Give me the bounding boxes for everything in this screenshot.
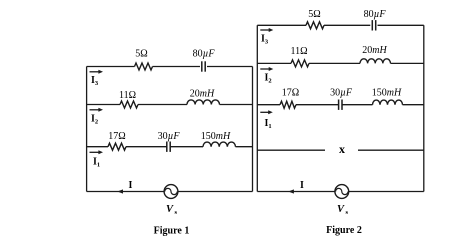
wire: Fig1 lower branch left segment: [87, 146, 108, 148]
svg-text:Figure 2: Figure 2: [326, 225, 362, 236]
svg-text:11Ω: 11Ω: [290, 46, 307, 57]
svg-text:17Ω: 17Ω: [282, 88, 299, 99]
svg-text:s: s: [175, 209, 178, 216]
wire: [309, 62, 360, 64]
svg-text:I3: I3: [91, 75, 99, 87]
wire: Fig1 bottom rail left of source: [87, 191, 165, 193]
svg-text:I2: I2: [265, 73, 272, 85]
resistor 17Ω (Fig1 lower branch): [108, 143, 126, 150]
wire: [220, 104, 253, 106]
wire: [153, 66, 201, 68]
current arrow I on Fig2 bottom wire (pointing left): [288, 189, 294, 193]
wire: [324, 24, 370, 26]
wire: [236, 146, 253, 148]
wire: [138, 104, 187, 106]
wire: [296, 104, 339, 106]
current arrow I3 (Fig1): [90, 71, 100, 73]
wire: [207, 66, 253, 68]
Figure 2 right rail wire: [423, 25, 425, 191]
wire: [126, 146, 167, 148]
svg-text:80µF: 80µF: [364, 9, 387, 20]
capacitor 30µF (Fig2 third branch): [338, 100, 340, 110]
svg-text:30µF: 30µF: [158, 131, 181, 142]
inductor 150mH (Fig2 third branch): [373, 100, 403, 105]
Figure 2 left rail wire: [256, 25, 258, 191]
wire: Fig2 top branch left segment: [257, 24, 306, 26]
Figure 1 left rail wire: [86, 67, 88, 192]
wire: Fig2 bottom rail left of source: [257, 191, 335, 193]
AC source Vs (Fig2): [335, 185, 349, 199]
inductor 20mH (Fig1 middle branch): [187, 100, 219, 105]
current arrow I1 (Fig1): [90, 151, 100, 153]
wire: [342, 104, 373, 106]
svg-text:x: x: [339, 142, 345, 156]
svg-text:5Ω: 5Ω: [308, 9, 320, 20]
svg-text:30µF: 30µF: [330, 88, 353, 99]
resistor 11Ω (Fig1 middle branch): [120, 101, 138, 108]
wire: Fig2 bottom rail right of source: [349, 191, 424, 193]
svg-text:80µF: 80µF: [193, 49, 216, 60]
current arrow I3 (Fig2): [260, 29, 269, 31]
svg-text:I2: I2: [91, 114, 98, 126]
inductor 20mH (Fig2 second branch): [360, 59, 390, 64]
svg-text:5Ω: 5Ω: [135, 49, 147, 60]
svg-text:V: V: [166, 204, 174, 215]
wire: Fig2 second branch left segment: [257, 62, 291, 64]
current arrow I on Fig1 bottom wire (pointing left): [117, 189, 123, 193]
current arrow I2 (Fig1): [90, 109, 100, 111]
wire: Fig1 top branch left segment: [87, 66, 135, 68]
wire: [378, 24, 424, 26]
svg-text:I1: I1: [93, 157, 100, 169]
Figure 1 right rail wire: [252, 67, 254, 192]
wire: [391, 62, 424, 64]
svg-text:20mH: 20mH: [190, 88, 215, 99]
svg-text:I3: I3: [261, 34, 269, 46]
wire: Fig1 middle branch left segment: [87, 104, 120, 106]
svg-text:11Ω: 11Ω: [119, 90, 136, 101]
svg-text:I1: I1: [265, 118, 272, 130]
svg-text:V: V: [337, 204, 345, 215]
resistor 5Ω (Fig2 top branch): [306, 22, 324, 29]
wire: [403, 104, 424, 106]
current arrow I1 (Fig2): [260, 111, 269, 113]
svg-text:s: s: [346, 209, 349, 216]
svg-text:I: I: [300, 180, 304, 191]
resistor 5Ω (Fig1 top branch): [135, 63, 153, 70]
resistor 11Ω (Fig2 second branch): [291, 60, 309, 67]
AC source Vs (Fig1): [164, 185, 178, 199]
capacitor 80µF (Fig2 top branch): [371, 20, 373, 30]
wire: Fig2 X branch right segment: [358, 149, 424, 151]
wire: Fig2 X branch left segment: [257, 149, 325, 151]
resistor 17Ω (Fig2 third branch): [280, 101, 296, 108]
svg-text:17Ω: 17Ω: [108, 131, 125, 142]
wire: Fig2 third branch left segment: [257, 104, 280, 106]
svg-text:20mH: 20mH: [362, 45, 387, 56]
capacitor 30µF (Fig1 lower branch): [166, 142, 168, 152]
svg-text:150mH: 150mH: [201, 131, 231, 142]
svg-text:Figure 1: Figure 1: [154, 226, 190, 237]
svg-text:150mH: 150mH: [372, 88, 402, 99]
wire: Fig1 bottom rail right of source: [178, 191, 253, 193]
current arrow I2 (Fig2): [260, 68, 269, 70]
svg-text:I: I: [129, 180, 133, 191]
capacitor 80µF (Fig1 top branch): [201, 61, 203, 71]
wire: [170, 146, 203, 148]
inductor 150mH (Fig1 lower branch): [203, 142, 235, 147]
